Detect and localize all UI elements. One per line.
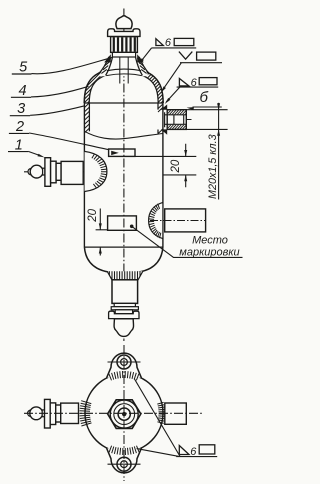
svg-text:6: 6: [190, 446, 197, 458]
plan horizontal centerline: [24, 412, 204, 414]
gland body with knurl stripes: [111, 37, 138, 53]
plan weld symbol: [176, 456, 217, 458]
weld callout 3 symbol: [177, 86, 219, 88]
plan right pipe: [165, 403, 187, 424]
svg-text:20: 20: [87, 208, 99, 222]
svg-text:4: 4: [18, 83, 26, 99]
valve 1 flange discs: [45, 158, 51, 187]
drain collar: [107, 271, 143, 280]
svg-text:M20x1,5 кл.3: M20x1,5 кл.3: [207, 134, 219, 199]
svg-text:Место: Место: [192, 234, 228, 246]
weld callout 1 leader: [140, 48, 151, 62]
bottom dished head: [84, 247, 162, 273]
plan bottom lug hole: [117, 457, 131, 471]
neck bore lines: [120, 57, 128, 84]
drain body: [112, 280, 138, 304]
plan top lug: [107, 353, 142, 378]
vessel vertical centerline: [123, 9, 125, 342]
label b arrow: [193, 106, 222, 108]
nozzle 2 pipe: [165, 209, 206, 232]
weld fillet left of gland: [104, 54, 111, 62]
shell left wall: [83, 103, 85, 247]
svg-text:б: б: [200, 89, 209, 106]
plan vertical centerline: [123, 345, 125, 481]
weld callout 2 leader: [162, 63, 181, 91]
plan valve body: [61, 403, 79, 423]
svg-text:3: 3: [17, 101, 25, 117]
svg-text:20: 20: [170, 159, 182, 173]
marking leader: [132, 226, 243, 257]
svg-text:6: 6: [165, 37, 172, 49]
marking plate upper: [109, 149, 135, 156]
head-shell weld seam: [84, 102, 163, 104]
weld fillet nozzle b bottom: [161, 129, 167, 134]
M20 dimension extension lines: [187, 110, 228, 130]
plan bottom lug: [107, 448, 142, 473]
nozzle b bore: [165, 112, 187, 127]
svg-text:маркировки: маркировки: [179, 246, 239, 258]
paper background: [0, 0, 246, 484]
svg-text:2: 2: [15, 119, 24, 135]
shell-bottom weld seam: [84, 246, 162, 248]
nozzle 2 centerline: [150, 220, 205, 222]
dome head outer: [84, 68, 163, 103]
dim 20 upper: [185, 144, 187, 188]
valve 1 knob: [28, 168, 32, 175]
plan weld leader from top lug: [134, 379, 180, 457]
weld callout 1 symbol: [152, 47, 197, 49]
drain knob: [114, 319, 133, 337]
weld callout 3 leader: [166, 87, 180, 102]
svg-text:6: 6: [191, 77, 198, 89]
dim 20 lower extension: [96, 229, 108, 231]
plan center hex fitting: [108, 400, 141, 429]
shell wall hatch: [85, 103, 163, 134]
vessel neck: [99, 56, 148, 76]
plan weld leader from bottom lug: [137, 449, 179, 457]
valve handwheel (top, edge-on): [108, 29, 140, 37]
svg-text:5: 5: [19, 59, 28, 75]
dim 20 lower: [99, 209, 101, 256]
nozzle b centerline stub: [187, 119, 192, 121]
dome head inner: [89, 73, 158, 103]
plan valve knob: [28, 410, 32, 417]
plan weld fans: [109, 371, 139, 380]
weld callout 2 symbol: [180, 62, 222, 64]
valve knob crown (top): [116, 16, 132, 29]
nozzle b body: [167, 110, 186, 130]
shell right wall: [162, 103, 164, 247]
section break line: [85, 131, 163, 139]
dim 20 upper extension lines: [135, 156, 196, 175]
drain steps: [114, 303, 135, 306]
valve 1 centerline: [24, 171, 96, 173]
weld fillet right of gland: [137, 54, 144, 62]
weld fillet nozzle b top: [161, 104, 167, 109]
M20 dimension line: [218, 103, 220, 200]
drain handwheel: [109, 311, 139, 318]
nozzle 2 weld collar: [149, 202, 163, 238]
valve 1 weld collar: [85, 151, 107, 191]
plan main circle: [85, 374, 163, 452]
plan valve discs: [45, 399, 51, 428]
marking plate lower: [108, 216, 137, 230]
valve 1 body: [61, 161, 83, 184]
plan top lug hole: [117, 355, 131, 369]
